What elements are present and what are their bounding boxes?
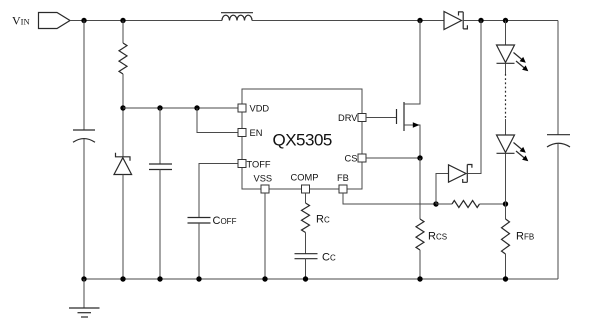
resistor RCS bbox=[416, 219, 447, 279]
wire CS down to RCS bbox=[419, 158, 421, 219]
svg-text:TOFF: TOFF bbox=[247, 160, 271, 170]
pin EN bbox=[238, 128, 262, 138]
node CS junction bbox=[417, 155, 422, 160]
wire top rail mid bbox=[252, 20, 444, 22]
node gnd E bbox=[262, 276, 267, 281]
pin DRV bbox=[338, 113, 366, 123]
zener diode D3 bbox=[449, 21, 482, 183]
op-amp U1 QX5305 body bbox=[242, 89, 362, 189]
node zener riser junction bbox=[478, 18, 483, 23]
pin FB bbox=[337, 173, 349, 193]
svg-text:QX5305: QX5305 bbox=[273, 131, 332, 150]
capacitor CC bbox=[295, 252, 336, 280]
node gnd B bbox=[120, 276, 125, 281]
svg-text:RCS: RCS bbox=[428, 231, 447, 243]
node gnd H bbox=[503, 276, 508, 281]
resistor R2 bbox=[436, 201, 506, 208]
svg-text:VDD: VDD bbox=[250, 104, 270, 114]
wire FB node riser to zener bbox=[436, 174, 449, 205]
svg-text:CS: CS bbox=[345, 154, 358, 164]
svg-text:COFF: COFF bbox=[213, 215, 237, 227]
node LED string top junction bbox=[503, 18, 508, 23]
svg-text:COMP: COMP bbox=[291, 173, 319, 183]
node gnd F bbox=[303, 276, 308, 281]
capacitor COFF bbox=[188, 215, 237, 279]
LED D4 bbox=[497, 21, 529, 75]
node LED string bottom junction bbox=[503, 201, 508, 206]
zener diode D1 bbox=[114, 153, 132, 279]
wire COMP down bbox=[305, 193, 307, 203]
wire DRV to gate bbox=[366, 117, 397, 119]
inductor L1 bbox=[221, 13, 253, 21]
wire dotted LED string bbox=[505, 74, 507, 119]
node MOSFET drain junction bbox=[417, 18, 422, 23]
resistor R1 bbox=[119, 21, 127, 158]
wire FB to feedback node bbox=[343, 193, 436, 204]
node gnd G bbox=[417, 276, 422, 281]
node VDD rail B bbox=[157, 105, 162, 110]
svg-text:VSS: VSS bbox=[254, 174, 273, 184]
wire top rail right bbox=[463, 20, 558, 22]
net label VIN bbox=[12, 13, 70, 29]
pin COMP bbox=[291, 173, 319, 194]
pin CS bbox=[345, 154, 367, 164]
svg-text:VIN: VIN bbox=[12, 14, 30, 28]
svg-text:RFB: RFB bbox=[516, 231, 534, 243]
svg-text:FB: FB bbox=[337, 173, 349, 183]
transistor Q1 bbox=[397, 21, 421, 159]
wire TOFF connection bbox=[199, 164, 242, 218]
node gnd A bbox=[81, 276, 86, 281]
wire top rail left bbox=[70, 20, 222, 22]
node VDD rail A bbox=[120, 105, 125, 110]
node top B bbox=[120, 18, 125, 23]
node gnd D bbox=[196, 276, 201, 281]
pin VSS bbox=[254, 174, 273, 194]
schottky diode D2 bbox=[444, 12, 467, 30]
svg-text:DRV: DRV bbox=[338, 113, 358, 123]
svg-text:EN: EN bbox=[250, 128, 263, 138]
svg-text:RC: RC bbox=[316, 214, 330, 226]
resistor RC bbox=[302, 203, 330, 254]
node gnd C bbox=[157, 276, 162, 281]
node FB junction bbox=[433, 201, 438, 206]
capacitor COUT bbox=[547, 135, 570, 279]
LED D5 bbox=[497, 119, 529, 204]
wire VDD horizontal bbox=[123, 107, 242, 109]
capacitor CIN bbox=[73, 21, 95, 280]
resistor RFB bbox=[502, 204, 535, 279]
svg-text:CC: CC bbox=[322, 252, 336, 264]
ground bbox=[69, 279, 100, 317]
node VDD rail C bbox=[194, 105, 199, 110]
wire output branch down bbox=[557, 21, 559, 135]
pin TOFF bbox=[238, 160, 271, 170]
node top A bbox=[81, 18, 86, 23]
wire VSS down bbox=[264, 193, 266, 279]
pin VDD bbox=[238, 104, 269, 114]
wire EN connection bbox=[197, 108, 242, 133]
capacitor C1 bbox=[149, 108, 172, 279]
wire CS to source junction bbox=[366, 157, 420, 159]
wire bottom rail bbox=[84, 278, 558, 280]
